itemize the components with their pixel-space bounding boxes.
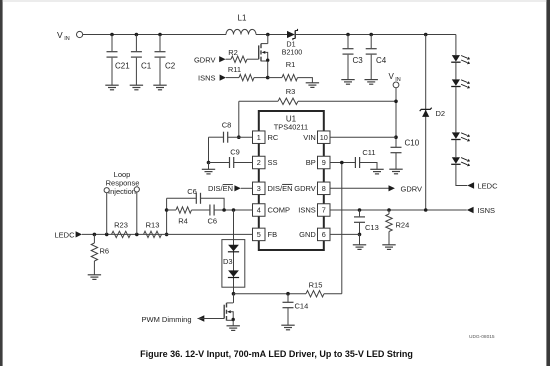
wire ISNS line [330,208,467,212]
ground R6 [88,275,101,280]
wire D3 to drain node [232,287,236,295]
svg-text:C8: C8 [222,121,232,130]
svg-text:4: 4 [257,206,261,215]
svg-text:SS: SS [268,158,278,167]
wire comp left vertical [165,198,169,236]
wire top input rail [83,33,226,37]
ground C11 [370,169,383,174]
node ISNS output label [467,206,495,215]
svg-text:C9: C9 [230,147,240,156]
wire C8 gnd leg [207,137,211,164]
capacitor C11 [355,148,377,170]
node ISNS sense label [198,74,226,83]
caption figure title [140,349,413,359]
svg-text:GDRV: GDRV [401,184,423,193]
page top light strip [3,0,547,2]
wire BP line [330,161,355,165]
LED D4 [451,55,470,64]
svg-text:DIS/EN: DIS/EN [208,184,233,193]
terminal injection left [104,188,109,235]
ground C3 [341,80,354,85]
svg-text:3: 3 [257,184,261,193]
wire BP to R15 vertical [341,163,343,294]
svg-text:9: 9 [322,158,326,167]
svg-text:UDG-08015: UDG-08015 [469,334,495,340]
svg-text:R24: R24 [396,221,410,230]
svg-text:LEDC: LEDC [478,182,499,191]
svg-text:C3: C3 [353,56,364,65]
node LEDC input label [55,231,83,240]
svg-text:COMP: COMP [268,206,291,215]
svg-text:R15: R15 [309,280,323,289]
LED D5 [451,79,470,88]
wire L1 to D1 anode [256,33,287,37]
svg-text:R11: R11 [228,65,241,74]
resistor R2 [226,48,259,62]
svg-text:2: 2 [257,158,261,167]
capacitor C6 top [167,187,225,210]
ground R24 [382,245,395,250]
svg-text:DIS/EN: DIS/EN [268,184,293,193]
svg-text:VIN: VIN [303,133,316,142]
svg-text:5: 5 [257,230,261,239]
resistor R1 [268,60,313,83]
svg-text:7: 7 [322,206,326,215]
pin 7 ISNS [298,204,330,217]
diode D2 zener [420,108,445,118]
svg-text:6: 6 [322,230,326,239]
node PWM Dimming label [142,315,225,324]
svg-text:L1: L1 [238,14,247,23]
resistor R23 [112,220,131,237]
svg-text:GND: GND [299,230,316,239]
terminal VIN circle [77,31,83,37]
svg-text:R3: R3 [286,87,296,96]
ground C13 [353,245,366,250]
node injection text [106,170,140,196]
svg-text:C4: C4 [376,56,387,65]
capacitor C21 [107,35,131,86]
pin 2 SS [253,156,278,169]
svg-text:ISNS: ISNS [198,74,216,83]
svg-text:TPS40211: TPS40211 [274,123,308,132]
wire LEDC line [82,233,167,237]
svg-text:BP: BP [306,158,316,167]
node DIS/EN input label [208,184,253,193]
page right border band [546,0,550,366]
capacitor C13 [354,210,379,245]
ground C21 [105,85,118,90]
resistor R15 [306,280,342,297]
svg-text:Figure 36. 12-V Input, 700-mA: Figure 36. 12-V Input, 700-mA LED Driver… [140,349,413,359]
svg-text:LEDC: LEDC [55,231,76,240]
svg-text:C2: C2 [165,62,176,71]
svg-text:D3: D3 [223,257,233,266]
node VIN right label [389,72,401,83]
capacitor C8 [209,121,253,143]
transistor Q1 main switch [259,44,270,62]
node FET source junction [266,76,270,80]
resistor R24 [386,210,409,245]
page left border band [0,0,3,366]
svg-text:ISNS: ISNS [298,206,316,215]
node GDRV output [330,184,422,193]
svg-text:C1: C1 [141,62,152,71]
wire LED1-2 [455,62,457,79]
op-amp U1 TPS40211 body [259,111,324,250]
wire comp to pin4 [222,208,252,212]
pin 4 COMP [253,204,291,217]
inductor L1 [226,14,256,35]
resistor R11 [226,65,268,81]
pin 1 RC [253,131,279,144]
wire COMP to D3 [233,210,235,240]
LED D6 [451,132,470,141]
resistor R6 [91,234,109,274]
diode D3 dual [222,240,245,288]
ground Q2 [227,326,240,331]
resistor R13 [144,220,162,237]
wire D2 branch [425,35,427,210]
ground C4 [365,80,378,85]
pin 9 BP [306,156,330,169]
svg-text:GDRV: GDRV [294,184,316,193]
capacitor C1 [131,35,152,86]
capacitor C4 [366,35,387,80]
ground C2 [153,85,166,90]
wire drain to rail [267,35,269,44]
node VIN input label [57,30,70,42]
ground C14 [281,325,294,330]
pin 5 FB [253,228,278,241]
wire pin10 to VIN stub [330,136,396,138]
transistor Q2 PWM dimming [224,303,235,321]
capacitor C9 [209,147,253,168]
svg-text:V: V [389,72,395,81]
svg-text:1: 1 [257,133,261,142]
svg-text:C13: C13 [365,223,379,232]
wire Q2 source to gnd [232,320,234,326]
svg-text:PWM Dimming: PWM Dimming [142,315,192,324]
wire LED string bottom [456,164,467,185]
wire R3 to pin1 [237,101,241,139]
note UDG number [469,334,495,340]
svg-text:R13: R13 [146,220,160,229]
node LEDC output label [467,182,498,191]
wire C9 gnd stem [208,163,210,170]
svg-text:C21: C21 [115,62,130,71]
svg-text:D2: D2 [436,109,446,118]
wire FB line [167,233,253,235]
svg-text:C14: C14 [295,302,309,311]
capacitor C3 [343,35,364,80]
terminal injection right [134,187,139,235]
svg-text:R23: R23 [114,220,128,229]
node GDRV gate-drive label [194,55,226,64]
svg-text:V: V [57,30,63,40]
svg-text:R2: R2 [228,48,238,57]
svg-text:R1: R1 [286,60,296,69]
svg-text:D1: D1 [286,40,295,49]
pin 3 DIS/EN [253,182,293,195]
ground C1 [130,85,143,90]
ground R1 [306,83,319,88]
svg-text:8: 8 [322,184,326,193]
svg-text:C6: C6 [208,217,218,226]
svg-text:Injection: Injection [108,187,136,196]
wire LED2-3 [455,87,457,133]
pin 10 VIN [303,131,330,144]
svg-text:R6: R6 [100,246,110,255]
svg-text:R4: R4 [178,217,188,226]
wire drain node to R15 [234,292,307,296]
wire source down [267,61,269,78]
ground C10 [389,169,402,174]
svg-text:ISNS: ISNS [478,206,496,215]
pin 8 GDRV [294,182,330,195]
svg-text:C6: C6 [187,187,197,196]
wire VIN stub [394,88,398,147]
diode D1 B2100 [282,29,303,56]
capacitor C2 [155,35,176,86]
svg-text:IN: IN [64,36,70,42]
wire node to Q2 drain [233,294,235,303]
capacitor C10 [391,139,420,170]
svg-text:FB: FB [268,230,278,239]
resistor R4 [167,207,192,226]
LED D7 [451,157,470,166]
capacitor C14 [283,294,309,326]
capacitor C6 series [192,205,225,226]
svg-text:GDRV: GDRV [194,55,216,64]
svg-text:10: 10 [320,133,328,142]
wire pin6 to ground [330,233,360,235]
wire LED string top [455,35,457,56]
wire output rail [295,33,456,37]
svg-text:C11: C11 [362,148,375,157]
resistor R3 [239,87,396,105]
svg-text:B2100: B2100 [282,48,303,56]
wire LED3-4 [455,140,457,158]
ground C8 C9 [202,169,215,174]
svg-text:RC: RC [268,133,279,142]
svg-text:C10: C10 [405,139,420,148]
terminal VIN right circle [393,82,399,88]
pin 6 GND [299,228,330,241]
